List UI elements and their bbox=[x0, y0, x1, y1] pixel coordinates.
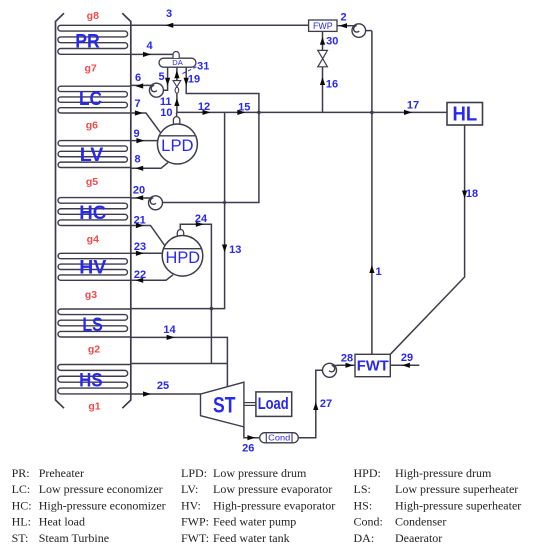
svg-text:13: 13 bbox=[229, 244, 241, 256]
svg-text:15: 15 bbox=[238, 101, 250, 113]
svg-text:9: 9 bbox=[133, 128, 139, 140]
svg-text:Deaerator: Deaerator bbox=[395, 531, 442, 545]
svg-text:High-pressure economizer: High-pressure economizer bbox=[39, 498, 166, 512]
svg-text:g6: g6 bbox=[86, 119, 98, 131]
svg-text:30: 30 bbox=[326, 35, 338, 47]
svg-text:24: 24 bbox=[195, 213, 208, 225]
svg-text:HPD: HPD bbox=[166, 249, 201, 267]
svg-text:LC:: LC: bbox=[12, 482, 31, 496]
svg-text:Low pressure evaporator: Low pressure evaporator bbox=[213, 482, 332, 496]
svg-text:FWT:: FWT: bbox=[181, 531, 209, 545]
svg-text:g7: g7 bbox=[84, 63, 96, 75]
svg-text:6: 6 bbox=[135, 72, 141, 84]
svg-text:HS:: HS: bbox=[354, 498, 373, 512]
svg-text:High-pressure drum: High-pressure drum bbox=[395, 466, 492, 480]
svg-text:17: 17 bbox=[407, 100, 419, 112]
svg-text:g8: g8 bbox=[87, 10, 99, 22]
svg-text:2: 2 bbox=[340, 12, 346, 24]
svg-text:g1: g1 bbox=[88, 401, 100, 413]
svg-text:HS: HS bbox=[79, 370, 103, 392]
svg-text:19: 19 bbox=[188, 74, 200, 86]
svg-text:Feed water tank: Feed water tank bbox=[213, 531, 290, 545]
svg-text:Load: Load bbox=[258, 395, 289, 413]
svg-text:High-pressure evaporator: High-pressure evaporator bbox=[213, 498, 335, 512]
svg-text:g5: g5 bbox=[86, 176, 98, 188]
svg-text:16: 16 bbox=[326, 79, 338, 91]
svg-text:25: 25 bbox=[157, 380, 169, 392]
svg-text:Cond: Cond bbox=[268, 433, 290, 442]
svg-text:PR:: PR: bbox=[12, 466, 30, 480]
svg-text:31: 31 bbox=[197, 60, 209, 72]
svg-text:18: 18 bbox=[466, 188, 478, 200]
svg-text:Low pressure economizer: Low pressure economizer bbox=[39, 482, 163, 496]
svg-text:g4: g4 bbox=[87, 234, 99, 246]
svg-text:Cond:: Cond: bbox=[354, 515, 383, 529]
svg-text:29: 29 bbox=[401, 352, 413, 364]
svg-text:12: 12 bbox=[198, 101, 210, 113]
svg-text:FWT: FWT bbox=[357, 358, 389, 374]
svg-text:1: 1 bbox=[375, 266, 381, 278]
svg-text:10: 10 bbox=[160, 107, 172, 119]
svg-text:DA: DA bbox=[172, 58, 183, 67]
svg-text:Heat load: Heat load bbox=[39, 515, 85, 529]
svg-text:28: 28 bbox=[341, 353, 353, 365]
svg-text:21: 21 bbox=[134, 215, 146, 227]
svg-text:DA:: DA: bbox=[354, 531, 375, 545]
svg-text:23: 23 bbox=[134, 241, 146, 253]
svg-text:HC: HC bbox=[79, 202, 106, 224]
svg-text:HPD:: HPD: bbox=[354, 466, 381, 480]
svg-text:4: 4 bbox=[146, 40, 153, 52]
svg-text:22: 22 bbox=[134, 269, 146, 281]
svg-text:ST: ST bbox=[213, 393, 236, 418]
svg-text:HV: HV bbox=[79, 257, 106, 279]
svg-text:FWP:: FWP: bbox=[181, 515, 209, 529]
svg-text:26: 26 bbox=[242, 443, 254, 455]
svg-text:LV:: LV: bbox=[181, 482, 198, 496]
svg-text:g3: g3 bbox=[85, 289, 97, 301]
svg-text:LPD:: LPD: bbox=[181, 466, 207, 480]
svg-text:g2: g2 bbox=[88, 343, 100, 355]
svg-text:Preheater: Preheater bbox=[39, 466, 84, 480]
svg-text:LS: LS bbox=[82, 314, 103, 336]
svg-text:Low pressure drum: Low pressure drum bbox=[213, 466, 307, 480]
svg-text:LS:: LS: bbox=[354, 482, 371, 496]
svg-text:HV:: HV: bbox=[181, 498, 201, 512]
svg-text:14: 14 bbox=[163, 324, 176, 336]
svg-text:PR: PR bbox=[75, 30, 100, 52]
svg-text:8: 8 bbox=[134, 154, 140, 166]
svg-text:Feed water pump: Feed water pump bbox=[213, 515, 296, 529]
svg-text:LV: LV bbox=[80, 144, 104, 166]
svg-text:LC: LC bbox=[79, 88, 102, 110]
svg-text:HC:: HC: bbox=[12, 498, 32, 512]
svg-text:Low pressure superheater: Low pressure superheater bbox=[395, 482, 518, 496]
svg-text:LPD: LPD bbox=[161, 137, 193, 155]
svg-text:20: 20 bbox=[133, 185, 145, 197]
svg-text:3: 3 bbox=[166, 8, 172, 20]
svg-text:Steam Turbine: Steam Turbine bbox=[39, 531, 109, 545]
svg-text:7: 7 bbox=[134, 98, 140, 110]
svg-text:HL: HL bbox=[453, 103, 478, 125]
svg-text:HL:: HL: bbox=[12, 515, 31, 529]
svg-text:27: 27 bbox=[320, 398, 332, 410]
svg-text:ST:: ST: bbox=[12, 531, 29, 545]
svg-text:Condenser: Condenser bbox=[395, 515, 446, 529]
svg-text:FWP: FWP bbox=[313, 21, 333, 32]
svg-text:5: 5 bbox=[158, 71, 164, 83]
svg-text:11: 11 bbox=[160, 96, 172, 108]
svg-text:High-pressure superheater: High-pressure superheater bbox=[395, 498, 521, 512]
